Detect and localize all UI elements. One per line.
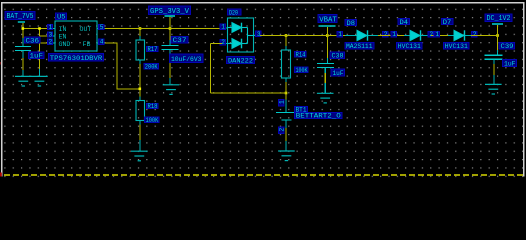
pin number 1 (D8) bbox=[337, 31, 343, 37]
svg-text:FB: FB bbox=[83, 41, 91, 48]
svg-text:TPS76301DBVR: TPS76301DBVR bbox=[50, 55, 103, 62]
svg-text:1: 1 bbox=[278, 100, 285, 104]
svg-text:1uF: 1uF bbox=[30, 53, 44, 60]
svg-text:3: 3 bbox=[49, 32, 53, 39]
svg-text:C36: C36 bbox=[26, 37, 40, 44]
svg-text:R17: R17 bbox=[148, 46, 158, 53]
designator label C37 bbox=[171, 37, 188, 45]
power port VBAT bbox=[318, 15, 337, 27]
designator label BT1 bbox=[295, 106, 308, 112]
svg-text:1: 1 bbox=[338, 31, 342, 38]
svg-text:IN: IN bbox=[59, 26, 67, 33]
svg-text:DC_1V2: DC_1V2 bbox=[487, 15, 511, 23]
capacitor C37 bbox=[162, 46, 179, 50]
value label 1uF (C39) bbox=[503, 59, 517, 67]
svg-text:D20: D20 bbox=[229, 9, 238, 16]
svg-text:U5: U5 bbox=[57, 14, 66, 21]
power port GPS_3V3_V bbox=[149, 6, 191, 16]
diode D7 HVC131 bbox=[434, 19, 477, 51]
part label HVC131 (D7) bbox=[444, 43, 470, 50]
svg-text:C37: C37 bbox=[173, 37, 187, 44]
wire BAT_7V5 rail bbox=[23, 23, 47, 40]
capacitor C38 bbox=[317, 58, 334, 93]
wire D7 to DC_1V2 bbox=[471, 25, 498, 50]
junction FB node bbox=[139, 88, 142, 91]
pin number 2 (D4) bbox=[428, 31, 434, 37]
pin number 2 (U5 GND) bbox=[47, 39, 52, 44]
sheet border bbox=[2, 2, 524, 177]
svg-text:HVC131: HVC131 bbox=[445, 43, 468, 50]
svg-text:100K: 100K bbox=[146, 117, 159, 124]
svg-text:BETTART2_O: BETTART2_O bbox=[296, 112, 341, 119]
ground (C36) bbox=[15, 76, 32, 86]
ground (R18) bbox=[131, 151, 148, 161]
svg-text:C39: C39 bbox=[501, 43, 514, 50]
ground (BT1) bbox=[278, 151, 295, 161]
diode D8 MA2S111 bbox=[337, 20, 388, 51]
designator label C38 bbox=[330, 52, 345, 60]
svg-text:4: 4 bbox=[100, 39, 104, 46]
svg-text:C38: C38 bbox=[332, 53, 344, 60]
designator label D7 bbox=[441, 19, 453, 25]
wire D20 pin2 to battery rail bbox=[211, 44, 287, 94]
wire VBAT rail bbox=[260, 27, 345, 58]
wire R17 to R18 bbox=[139, 60, 141, 101]
svg-text:OUT: OUT bbox=[80, 26, 92, 33]
designator label U5 bbox=[56, 13, 67, 20]
designator label R17 bbox=[147, 46, 159, 53]
svg-text:5: 5 bbox=[100, 24, 104, 31]
pin number 2 (D20) bbox=[220, 39, 226, 45]
op IC U5 TPS76301DBVR bbox=[47, 13, 105, 62]
pin number 2 (BT1) bbox=[279, 127, 285, 134]
designator label C36 bbox=[25, 37, 41, 44]
svg-text:DAN222: DAN222 bbox=[228, 58, 253, 65]
svg-text:100K: 100K bbox=[296, 67, 308, 74]
svg-text:D8: D8 bbox=[347, 20, 356, 27]
value label 1uF (C38) bbox=[331, 69, 345, 77]
designator label D8 bbox=[345, 20, 357, 26]
svg-text:GND: GND bbox=[59, 41, 71, 48]
svg-text:10uF/6V3: 10uF/6V3 bbox=[171, 56, 202, 63]
svg-text:HVC131: HVC131 bbox=[398, 43, 421, 50]
wire C36 leads bbox=[23, 38, 40, 76]
pin number 1 (D4) bbox=[391, 31, 397, 37]
ground (U5 GND) bbox=[31, 76, 48, 86]
resistor R14 bbox=[282, 50, 291, 78]
ground (C38) bbox=[317, 93, 334, 103]
svg-text:1: 1 bbox=[435, 31, 439, 38]
ground (C39) bbox=[485, 84, 502, 94]
svg-text:2: 2 bbox=[429, 31, 433, 38]
pin number 2 (D8) bbox=[382, 31, 388, 37]
svg-text:D4: D4 bbox=[400, 19, 409, 26]
svg-text:BAT_7V5: BAT_7V5 bbox=[7, 13, 34, 21]
value label 200K (R17) bbox=[144, 63, 159, 70]
wire R14 to battery junction bbox=[285, 46, 287, 100]
svg-text:2: 2 bbox=[49, 39, 53, 46]
wire GPS_3V3_V rail bbox=[105, 16, 222, 40]
wire R18 to ground bbox=[139, 121, 141, 152]
wire D8 to D4 bbox=[378, 35, 404, 37]
diode D4 HVC131 bbox=[391, 19, 434, 51]
svg-text:2: 2 bbox=[473, 31, 477, 38]
value label 100K (R18) bbox=[145, 117, 160, 124]
svg-text:MA2S111: MA2S111 bbox=[346, 43, 373, 50]
resistor R17 bbox=[136, 40, 145, 60]
value label 1uF (C36) bbox=[29, 52, 45, 60]
battery BT1 bbox=[276, 100, 342, 152]
pin number 3 (U5 EN) bbox=[47, 32, 52, 37]
designator label D4 bbox=[398, 19, 410, 25]
part label HVC131 (D4) bbox=[397, 43, 423, 50]
part label DAN222 (D20) bbox=[227, 57, 255, 64]
svg-text:3: 3 bbox=[257, 31, 261, 38]
designator label C39 bbox=[499, 43, 515, 51]
svg-text:1uF: 1uF bbox=[504, 60, 516, 67]
svg-text:2: 2 bbox=[384, 31, 388, 38]
wire U5 FB to divider bbox=[105, 43, 140, 89]
svg-text:GPS_3V3_V: GPS_3V3_V bbox=[150, 8, 190, 16]
dual diode D20 DAN222 bbox=[220, 9, 261, 65]
power port DC_1V2 bbox=[485, 14, 512, 24]
capacitor C39 bbox=[485, 50, 503, 84]
pin number 1 (D20) bbox=[220, 24, 226, 30]
value label 10uF/6V3 (C37) bbox=[170, 54, 204, 63]
svg-text:1: 1 bbox=[392, 31, 396, 38]
resistor R18 bbox=[136, 101, 145, 121]
designator label R14 bbox=[295, 51, 307, 58]
svg-text:R14: R14 bbox=[296, 51, 306, 58]
part label TPS76301DBVR (U5) bbox=[49, 54, 104, 62]
pin number 5 (U5 OUT) bbox=[99, 24, 104, 29]
pin number 3 (D20) bbox=[256, 31, 262, 37]
red sheet-edge marks bbox=[0, 62, 2, 177]
ground (C37) bbox=[163, 85, 180, 95]
capacitor C36 bbox=[15, 47, 31, 51]
power port BAT_7V5 bbox=[5, 12, 35, 23]
pin number 1 (BT1) bbox=[279, 100, 285, 107]
svg-text:1uF: 1uF bbox=[333, 70, 344, 77]
designator label D20 bbox=[228, 9, 242, 15]
svg-text:1: 1 bbox=[49, 24, 53, 31]
svg-text:EN: EN bbox=[59, 34, 67, 41]
pin number 1 (U5 IN) bbox=[47, 24, 52, 29]
pin number 4 (U5 FB) bbox=[99, 39, 104, 44]
svg-text:VBAT: VBAT bbox=[319, 16, 337, 24]
svg-text:200K: 200K bbox=[145, 63, 158, 70]
svg-text:D7: D7 bbox=[443, 19, 452, 26]
designator label R18 bbox=[147, 103, 159, 110]
svg-text:2: 2 bbox=[221, 39, 225, 46]
part label MA2S111 (D8) bbox=[345, 43, 374, 50]
wire U5 GND to ground bbox=[40, 43, 48, 69]
pin number 2 (D7) bbox=[471, 31, 477, 37]
bottom dashed boundary line bbox=[4, 174, 523, 176]
wire D4 to D7 bbox=[431, 35, 448, 37]
svg-text:R18: R18 bbox=[148, 103, 158, 110]
value label 100K (R14) bbox=[295, 67, 309, 74]
pin number 1 (D7) bbox=[434, 31, 440, 37]
wire C37 lead bbox=[169, 40, 171, 85]
svg-text:2: 2 bbox=[278, 128, 285, 132]
part label BETTART2_O (BT1) bbox=[295, 112, 343, 118]
svg-text:1: 1 bbox=[221, 24, 225, 31]
